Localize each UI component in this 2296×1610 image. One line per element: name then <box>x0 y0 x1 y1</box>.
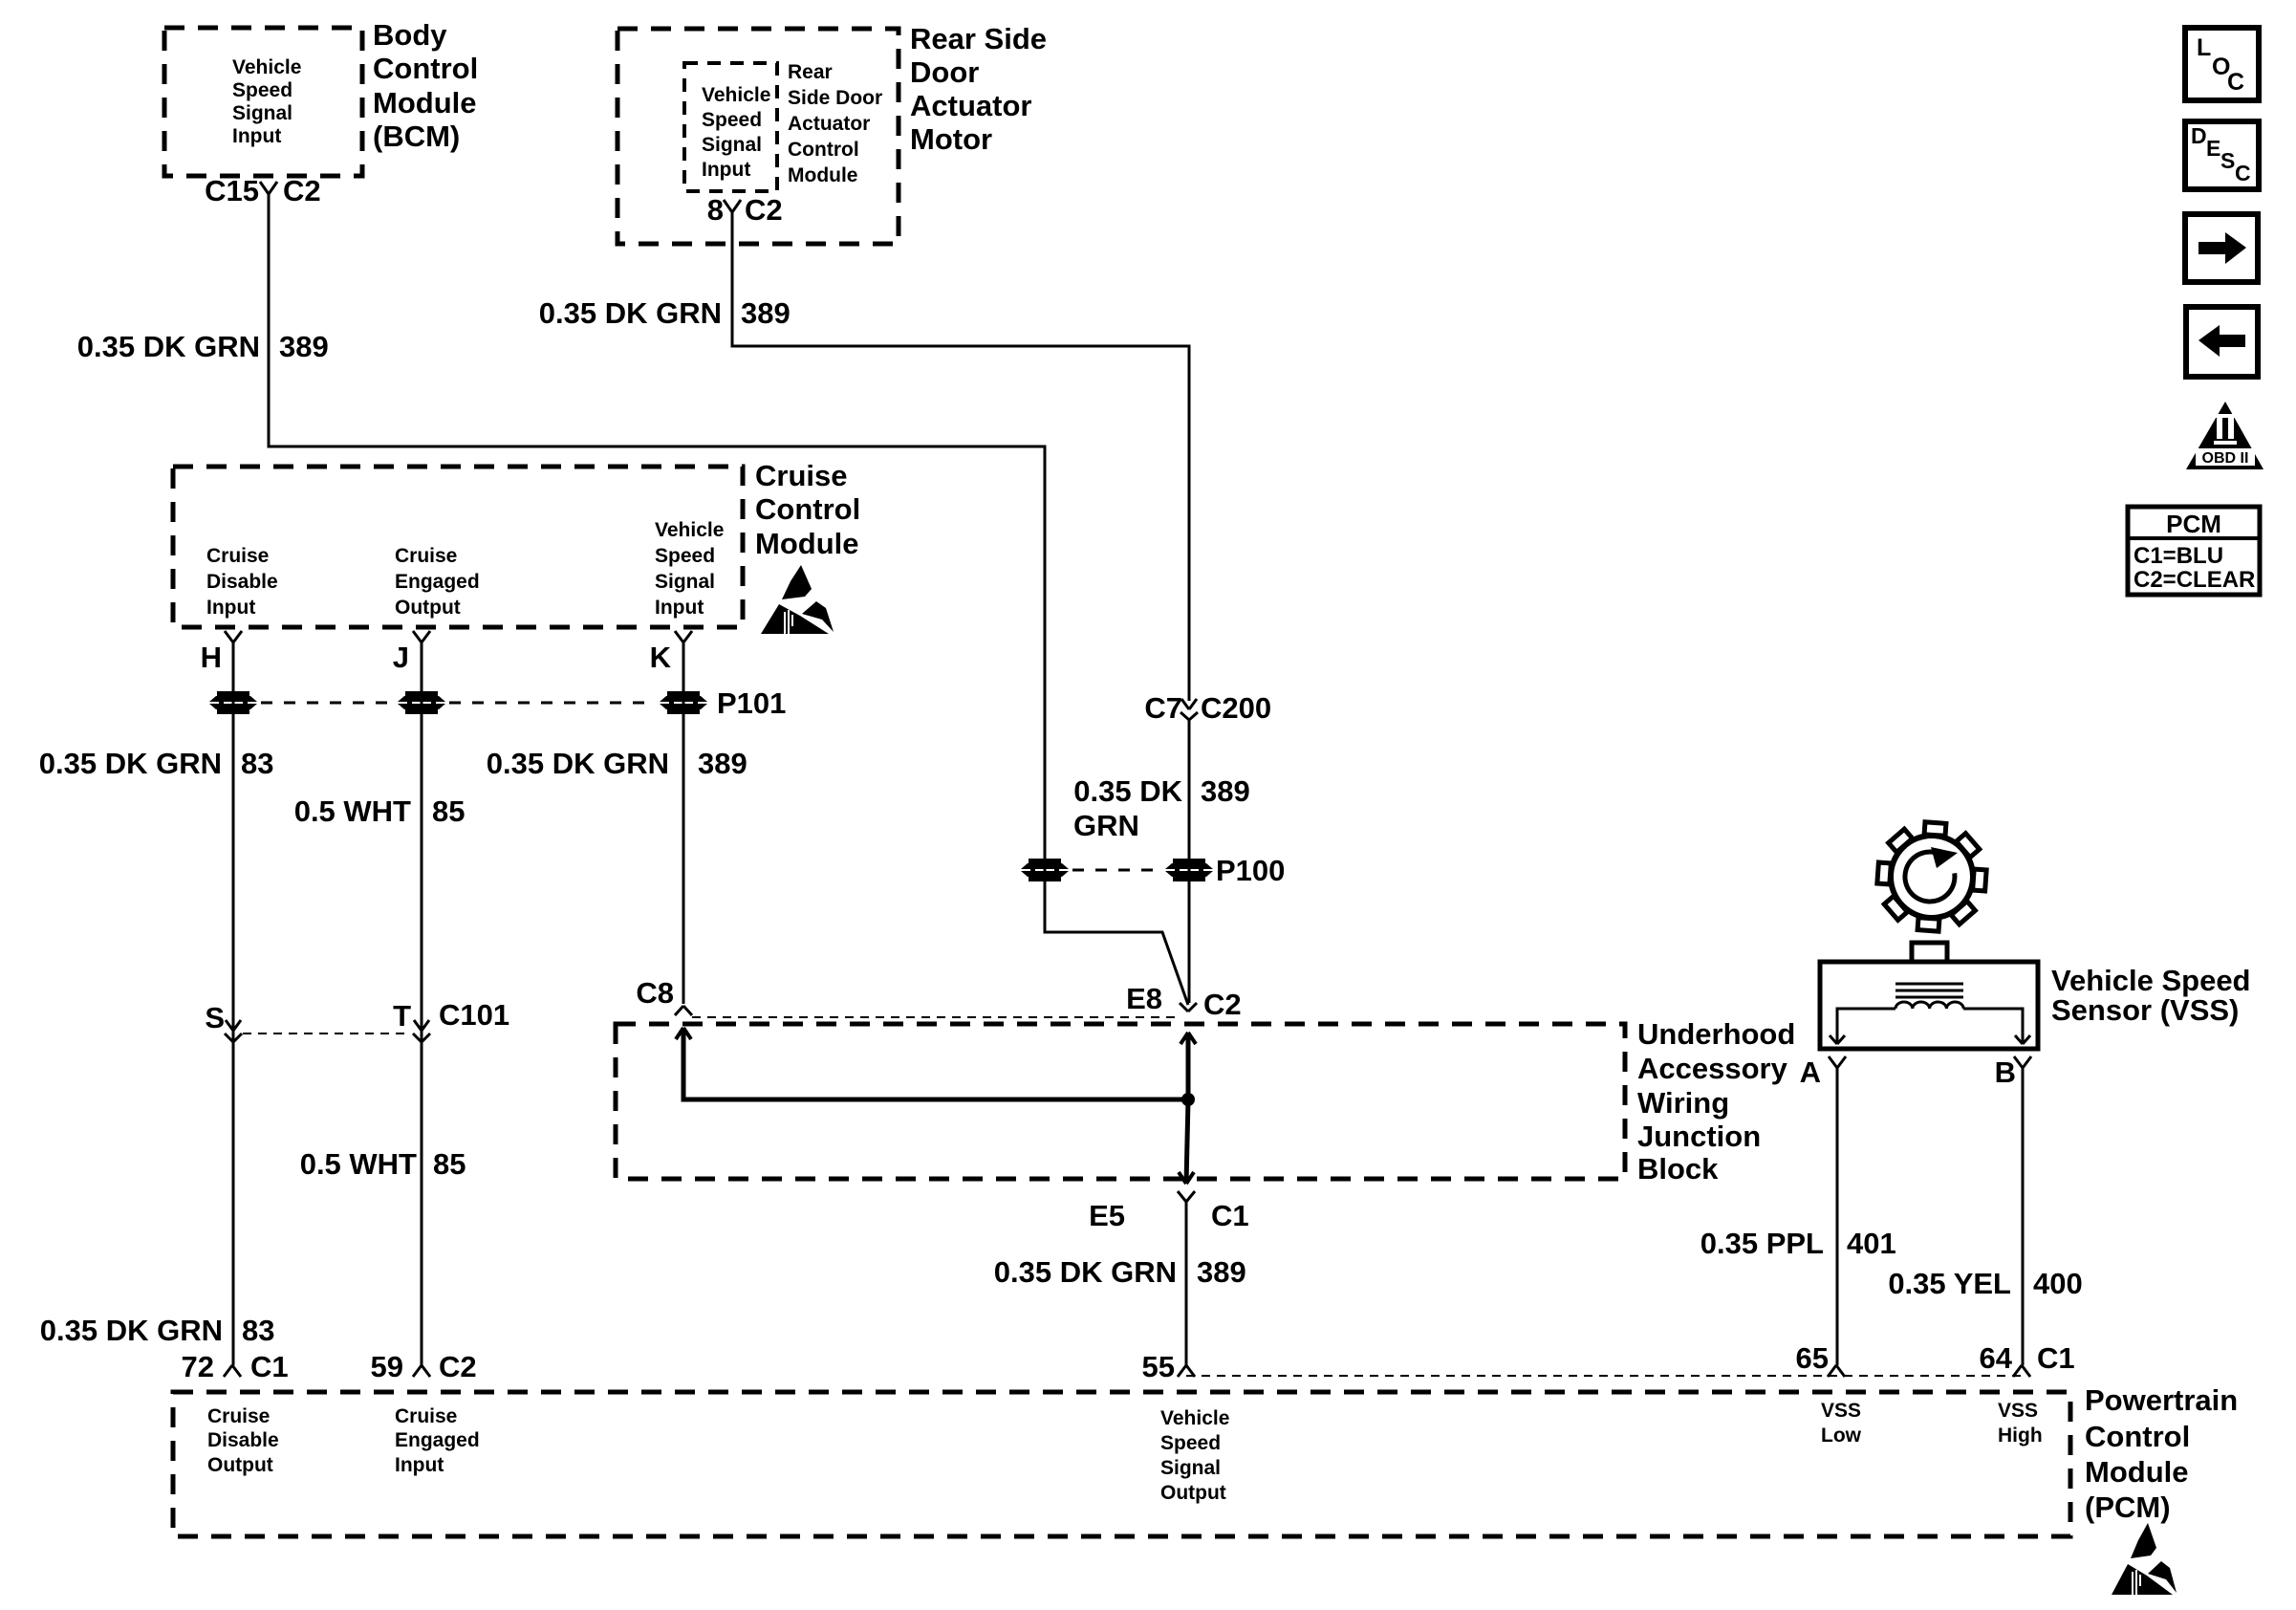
pin 59 chevron <box>413 1365 422 1377</box>
DESC legend box <box>2185 121 2259 189</box>
thin dashed connector face line C8-E8 <box>692 1016 1180 1018</box>
wire: 0.35 YEL 400 VSS B to PCM 64 <box>2022 1068 2025 1365</box>
LOC legend box <box>2185 28 2259 100</box>
svg-text:Speed: Speed <box>655 545 715 567</box>
svg-text:0.35 DK GRN: 0.35 DK GRN <box>77 330 260 363</box>
svg-text:Input: Input <box>702 159 750 181</box>
svg-text:S: S <box>2220 148 2235 173</box>
svg-text:Input: Input <box>655 597 704 619</box>
pin C8 chevron <box>675 1006 683 1015</box>
svg-text:GRN: GRN <box>1073 809 1139 842</box>
svg-text:Accessory: Accessory <box>1637 1052 1788 1085</box>
connector C7/C200 arrow <box>1181 699 1189 709</box>
ESD static sensitive symbol (PCM) <box>2112 1523 2177 1595</box>
svg-text:64: 64 <box>1980 1341 2013 1375</box>
svg-text:B: B <box>1995 1055 2016 1089</box>
svg-text:Cruise: Cruise <box>395 1405 457 1427</box>
svg-text:Control: Control <box>2085 1420 2190 1453</box>
svg-text:Input: Input <box>232 125 281 147</box>
svg-text:0.5 WHT: 0.5 WHT <box>294 794 411 828</box>
svg-text:Actuator: Actuator <box>910 89 1031 122</box>
svg-text:Cruise: Cruise <box>755 459 847 492</box>
svg-text:85: 85 <box>433 1147 466 1181</box>
VSS coil winding <box>1895 1002 1963 1009</box>
wire: 0.35 DK GRN 389 from C200 to junction block E8 <box>1188 720 1191 1003</box>
svg-text:C2: C2 <box>283 174 321 207</box>
svg-text:Actuator: Actuator <box>788 113 870 135</box>
svg-text:Output: Output <box>395 597 461 619</box>
svg-text:Module: Module <box>2085 1455 2189 1489</box>
VSS internal lead A with down arrow <box>1837 1009 1895 1042</box>
svg-text:0.35 DK GRN: 0.35 DK GRN <box>994 1255 1177 1289</box>
svg-text:0.35 DK GRN: 0.35 DK GRN <box>487 747 669 780</box>
svg-text:C1=BLU: C1=BLU <box>2134 543 2223 569</box>
connector P101 cavity on K wire <box>660 691 707 714</box>
svg-text:C8: C8 <box>636 976 674 1010</box>
svg-text:T: T <box>393 999 411 1033</box>
connector C101 dashed link <box>243 1033 411 1034</box>
pin chevron at rear door pin 8 <box>724 200 732 212</box>
wire: 0.35 DK GRN 389 junction block E5 to PCM 55 <box>1185 1202 1188 1365</box>
module box: Powertrain Control Module (PCM) <box>173 1392 2070 1536</box>
svg-text:C1: C1 <box>2037 1341 2075 1375</box>
svg-text:C2: C2 <box>1203 988 1242 1021</box>
svg-text:83: 83 <box>242 1314 274 1347</box>
svg-text:Block: Block <box>1637 1152 1719 1186</box>
svg-text:Input: Input <box>206 597 255 619</box>
svg-text:Engaged: Engaged <box>395 571 480 593</box>
connector C101 arrow on S wire <box>226 1020 233 1031</box>
svg-text:D: D <box>2191 123 2207 148</box>
svg-text:65: 65 <box>1796 1341 1829 1375</box>
svg-text:401: 401 <box>1847 1227 1896 1260</box>
svg-text:E8: E8 <box>1126 982 1162 1015</box>
svg-text:Module: Module <box>373 86 477 120</box>
svg-text:Signal: Signal <box>655 571 715 593</box>
svg-text:Signal: Signal <box>702 134 762 156</box>
svg-text:PCM: PCM <box>2166 510 2221 538</box>
svg-text:72: 72 <box>182 1350 214 1383</box>
connector C101 chevron on S wire <box>225 1033 233 1042</box>
wire: 0.35 DK GRN 389 from rear door to C200 <box>732 212 1189 701</box>
svg-text:Powertrain: Powertrain <box>2085 1383 2238 1417</box>
svg-text:0.35 DK GRN: 0.35 DK GRN <box>539 296 722 330</box>
svg-text:389: 389 <box>1201 774 1250 808</box>
wire: 0.5 WHT 85 cruise J to PCM 59 <box>421 642 423 1365</box>
junction block dashed box: Underhood Accessory Wiring Junction Block <box>616 1024 1625 1179</box>
svg-text:0.35 DK: 0.35 DK <box>1073 774 1182 808</box>
svg-text:Cruise: Cruise <box>395 545 457 567</box>
junction block internal wire to E5 with down arrow <box>1186 1099 1188 1184</box>
pin 55 chevron <box>1178 1365 1186 1377</box>
connector P100 right cavity (rear door wire) <box>1165 859 1213 881</box>
svg-text:C2=CLEAR: C2=CLEAR <box>2134 567 2255 593</box>
svg-text:389: 389 <box>698 747 747 780</box>
svg-text:Vehicle: Vehicle <box>232 56 301 78</box>
wire: 0.35 DK GRN 389 cruise K to junction block C8 <box>682 642 685 1004</box>
back arrow legend box <box>2186 307 2258 377</box>
module box: Body Control Module (BCM) <box>164 28 362 176</box>
svg-text:Underhood: Underhood <box>1637 1017 1795 1051</box>
wire: 0.35 DK GRN 389 from BCM to junction block E8 <box>269 194 1188 1005</box>
svg-text:Disable: Disable <box>207 1429 279 1451</box>
svg-text:83: 83 <box>241 747 273 780</box>
svg-text:Cruise: Cruise <box>207 1405 270 1427</box>
svg-text:Control: Control <box>373 52 478 85</box>
svg-text:0.35 DK GRN: 0.35 DK GRN <box>40 1314 223 1347</box>
connector P100 left cavity (BCM wire) <box>1021 859 1069 881</box>
connector C7/C200 chevron <box>1180 712 1189 720</box>
pin 64 chevron <box>2013 1365 2022 1377</box>
svg-text:Cruise: Cruise <box>206 545 269 567</box>
svg-text:C200: C200 <box>1201 691 1271 725</box>
svg-text:H: H <box>201 641 222 674</box>
svg-text:Control: Control <box>788 139 859 161</box>
svg-text:C2: C2 <box>745 193 783 227</box>
connector C101 chevron on T wire <box>413 1033 422 1042</box>
svg-text:Output: Output <box>1160 1482 1226 1504</box>
forward arrow legend box <box>2185 214 2258 282</box>
svg-text:VSS: VSS <box>1821 1400 1861 1422</box>
svg-text:A: A <box>1800 1055 1821 1089</box>
junction block internal junction dot <box>1181 1093 1195 1106</box>
pin E8 chevron <box>1180 1003 1188 1012</box>
svg-text:C: C <box>2227 69 2244 96</box>
svg-text:Vehicle: Vehicle <box>655 519 724 541</box>
svg-text:389: 389 <box>1197 1255 1246 1289</box>
svg-text:(BCM): (BCM) <box>373 120 460 153</box>
svg-text:P100: P100 <box>1216 854 1285 887</box>
svg-text:C1: C1 <box>1211 1199 1249 1232</box>
VSS internal lead B with down arrow <box>1963 1009 2023 1042</box>
svg-text:0.35 DK GRN: 0.35 DK GRN <box>39 747 222 780</box>
VSS core lines <box>1895 983 1963 986</box>
svg-text:Vehicle: Vehicle <box>702 84 770 106</box>
svg-text:Speed: Speed <box>232 79 292 101</box>
connector P100 dashed link <box>1072 869 1161 872</box>
svg-text:Engaged: Engaged <box>395 1429 480 1451</box>
module box: Cruise Control Module <box>173 467 743 627</box>
pin B chevron <box>2014 1056 2023 1068</box>
svg-text:389: 389 <box>741 296 791 330</box>
svg-text:Junction: Junction <box>1637 1120 1761 1153</box>
thin dashed connector face line at PCM C1 <box>1186 1375 2021 1377</box>
svg-text:85: 85 <box>432 794 465 828</box>
svg-text:Signal: Signal <box>1160 1457 1221 1479</box>
connector P101 cavity on H wire <box>209 691 257 714</box>
svg-text:E: E <box>2206 136 2220 161</box>
svg-text:OBD II: OBD II <box>2202 450 2249 467</box>
svg-text:Sensor (VSS): Sensor (VSS) <box>2051 993 2239 1027</box>
svg-text:Speed: Speed <box>702 109 762 131</box>
svg-text:Control: Control <box>755 492 860 526</box>
connector P101 cavity on J wire <box>398 691 445 714</box>
pin H chevron <box>225 631 233 642</box>
svg-text:C2: C2 <box>439 1350 477 1383</box>
svg-text:Low: Low <box>1821 1425 1862 1447</box>
junction block internal wire C8 leg with up arrow <box>683 1028 1188 1099</box>
svg-text:C15: C15 <box>205 174 259 207</box>
connector P101 dashed link J-K <box>449 702 656 705</box>
svg-text:400: 400 <box>2033 1267 2083 1300</box>
pin A chevron <box>1829 1056 1837 1068</box>
VSS connector nub <box>1912 943 1947 962</box>
svg-text:C7: C7 <box>1144 691 1182 725</box>
svg-text:Disable: Disable <box>206 571 278 593</box>
pin J chevron <box>413 631 422 642</box>
svg-text:E5: E5 <box>1089 1199 1125 1232</box>
svg-text:Motor: Motor <box>910 122 992 156</box>
component box: Vehicle Speed Sensor (VSS) <box>1820 962 2038 1049</box>
svg-text:Module: Module <box>788 164 858 186</box>
svg-text:C101: C101 <box>439 998 509 1032</box>
svg-text:Vehicle: Vehicle <box>1160 1407 1229 1429</box>
pin 65 chevron <box>1828 1365 1836 1377</box>
svg-text:0.35 PPL: 0.35 PPL <box>1700 1227 1824 1260</box>
svg-text:55: 55 <box>1142 1350 1175 1383</box>
ESD static sensitive symbol (cruise control module) <box>761 565 834 634</box>
svg-text:Speed: Speed <box>1160 1432 1221 1454</box>
svg-text:L: L <box>2197 34 2211 61</box>
svg-text:High: High <box>1998 1425 2043 1447</box>
OBD II triangle icon <box>2186 402 2264 469</box>
svg-text:Vehicle Speed: Vehicle Speed <box>2051 964 2251 997</box>
svg-text:Output: Output <box>207 1454 273 1476</box>
inner box: Vehicle Speed Signal Input (rear door) <box>684 63 777 191</box>
svg-text:0.35 YEL: 0.35 YEL <box>1888 1267 2011 1300</box>
pin chevron at BCM C15 <box>260 182 269 194</box>
VSS reluctor gear icon <box>1877 822 1986 931</box>
connector P101 dashed link H-J <box>261 702 394 705</box>
svg-text:Module: Module <box>755 527 859 560</box>
svg-text:(PCM): (PCM) <box>2085 1490 2171 1524</box>
connector C101 arrow on T wire <box>414 1020 422 1031</box>
PCM connector legend table <box>2128 507 2260 595</box>
svg-text:Side Door: Side Door <box>788 87 882 109</box>
junction block internal wire to E8 with up arrow <box>1186 1033 1191 1099</box>
svg-text:C: C <box>2235 161 2251 185</box>
svg-text:389: 389 <box>279 330 329 363</box>
svg-text:J: J <box>393 641 409 674</box>
svg-text:59: 59 <box>371 1350 403 1383</box>
pin 72 chevron <box>224 1365 232 1377</box>
svg-text:Signal: Signal <box>232 102 292 124</box>
svg-text:0.5 WHT: 0.5 WHT <box>300 1147 417 1181</box>
wire: 0.35 PPL 401 VSS A to PCM 65 <box>1836 1068 1839 1365</box>
module box: Rear Side Door Actuator Motor <box>617 29 899 244</box>
svg-text:P101: P101 <box>717 686 786 720</box>
svg-text:K: K <box>650 641 672 674</box>
svg-text:C1: C1 <box>250 1350 289 1383</box>
svg-text:Rear Side: Rear Side <box>910 22 1047 55</box>
svg-text:Input: Input <box>395 1454 444 1476</box>
svg-text:Rear: Rear <box>788 61 833 83</box>
svg-text:VSS: VSS <box>1998 1400 2038 1422</box>
pin K chevron <box>675 631 683 642</box>
svg-text:Wiring: Wiring <box>1637 1086 1729 1120</box>
svg-text:S: S <box>205 1001 225 1034</box>
svg-text:Door: Door <box>910 55 979 89</box>
pin E5 chevron <box>1178 1191 1186 1202</box>
wire: 0.35 DK GRN 83 cruise H to PCM 72 <box>232 642 235 1365</box>
svg-text:Body: Body <box>373 18 447 52</box>
svg-text:8: 8 <box>707 193 724 227</box>
